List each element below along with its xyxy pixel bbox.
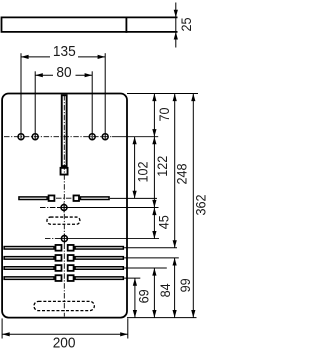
upper slot extension line xyxy=(110,197,157,199)
plate front view outline xyxy=(2,94,127,318)
dimension 200 xyxy=(2,318,128,338)
svg-text:362: 362 xyxy=(193,195,207,216)
upper left square xyxy=(49,195,55,201)
slot row 3 right slot xyxy=(75,267,123,270)
target circle B centerline xyxy=(45,238,159,240)
svg-text:70: 70 xyxy=(156,108,172,122)
slot row 1 extension line xyxy=(124,247,177,249)
slot row 3 left square xyxy=(56,265,62,271)
dimension 69 xyxy=(134,278,136,318)
slot row 4 left square xyxy=(56,275,62,281)
target circle A centerline xyxy=(40,207,159,209)
slot row 2 left square xyxy=(56,255,62,261)
dimension 122 xyxy=(153,137,155,208)
vertical centerline axis xyxy=(63,95,65,317)
slot row 1 left slot xyxy=(4,247,54,250)
hole circle 2 xyxy=(32,134,38,140)
dimension 45 xyxy=(153,208,155,239)
svg-text:45: 45 xyxy=(156,215,172,229)
hole circle 1 xyxy=(18,134,24,140)
slot row 1 right slot xyxy=(75,247,123,250)
slot row 2 left slot xyxy=(4,257,54,260)
slot row 3 right square xyxy=(68,265,74,271)
dashed slot knockout 1 xyxy=(47,217,80,224)
hole circle 4 xyxy=(102,134,108,140)
slot row 3 extension line xyxy=(124,267,167,269)
slot row 3 left slot xyxy=(4,267,54,270)
dimension 70 xyxy=(153,94,155,137)
upper right slot xyxy=(80,197,109,200)
upper right square xyxy=(74,195,80,201)
target circle B xyxy=(61,236,67,242)
slot row 4 left slot xyxy=(4,277,54,280)
svg-text:135: 135 xyxy=(53,43,76,60)
bottom edge extension line xyxy=(127,317,197,319)
svg-text:102: 102 xyxy=(135,162,151,183)
slot row 2 extension line xyxy=(124,257,179,259)
slot row 1 left square xyxy=(56,245,62,251)
target circle A xyxy=(61,205,67,211)
upper left slot xyxy=(19,197,47,200)
slot row 4 right square xyxy=(68,275,74,281)
top edge extension line xyxy=(127,93,198,95)
dimension 80 xyxy=(35,71,92,140)
svg-text:200: 200 xyxy=(53,335,76,350)
hole circle 3 xyxy=(89,134,95,140)
svg-text:248: 248 xyxy=(174,164,190,185)
slot row 2 right square xyxy=(68,255,74,261)
svg-text:80: 80 xyxy=(56,64,71,81)
dimension 99 xyxy=(174,258,176,318)
slot row 1 right square xyxy=(68,245,74,251)
svg-text:69: 69 xyxy=(136,289,152,303)
slot row 4 right slot xyxy=(75,277,123,280)
upper slot centerline xyxy=(56,197,72,199)
svg-text:25: 25 xyxy=(178,18,194,32)
dimension 25 xyxy=(175,3,177,48)
svg-text:122: 122 xyxy=(154,156,170,177)
hole centerline xyxy=(4,136,158,138)
dashed slot knockout 2 xyxy=(34,301,94,310)
plate side view xyxy=(2,17,178,33)
dimension 84 xyxy=(153,268,155,318)
dimension 248 xyxy=(174,94,176,248)
dimension 362 xyxy=(192,94,194,318)
slot row 4 extension line xyxy=(124,277,140,279)
svg-text:84: 84 xyxy=(157,283,173,297)
slot row 2 right slot xyxy=(75,257,123,260)
svg-text:99: 99 xyxy=(177,278,193,292)
central square hole xyxy=(61,168,68,175)
dimension 135 xyxy=(21,53,105,140)
central vertical slot xyxy=(62,95,67,166)
dimension 102 xyxy=(134,137,136,199)
